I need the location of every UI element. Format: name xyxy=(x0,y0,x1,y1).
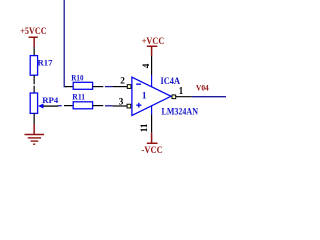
pin: R11 pin 1 (left) xyxy=(64,105,73,107)
potentiometer RP4 xyxy=(30,93,59,113)
svg-text:1: 1 xyxy=(179,86,183,97)
pin 2 of op-amp IC4A (inverting input) xyxy=(113,76,131,89)
ground xyxy=(25,124,45,144)
pin: R17 pin 2 (bottom) xyxy=(33,75,35,84)
svg-text:2: 2 xyxy=(120,76,125,86)
power port -VCC xyxy=(142,133,163,156)
svg-text:V04: V04 xyxy=(196,83,209,93)
pin 3 of op-amp IC4A (non-inverting input) xyxy=(113,97,131,108)
pin: RP4 pin 2 (bottom) xyxy=(33,113,35,124)
wire: R10 to op-amp pin 2 xyxy=(105,86,113,88)
svg-text:-VCC: -VCC xyxy=(142,146,163,156)
svg-text:R11: R11 xyxy=(72,92,85,102)
resistor R17 xyxy=(30,56,53,76)
svg-text:LM324AN: LM324AN xyxy=(162,106,199,116)
pin: RP4 pin 1 (top) xyxy=(33,86,35,93)
wire: R11 to op-amp pin 3 xyxy=(105,105,113,107)
power port +VCC xyxy=(142,37,165,56)
svg-text:+VCC: +VCC xyxy=(142,37,165,47)
op-amp IC4A triangle body xyxy=(132,77,171,115)
pin: RP4 wiper pin xyxy=(43,105,58,107)
svg-text:11: 11 xyxy=(139,123,149,132)
power port +5VCC xyxy=(20,27,46,47)
resistor R10 xyxy=(71,72,92,89)
pin 11 of op-amp IC4A (V-) xyxy=(139,106,151,133)
wire: vertical net from top edge into R10 row xyxy=(64,0,66,87)
pin: R10 pin 1 (left) xyxy=(65,86,73,88)
svg-text:R17: R17 xyxy=(38,58,54,68)
svg-text:1: 1 xyxy=(142,90,147,101)
pin 1 of op-amp IC4A (output) xyxy=(172,86,192,98)
pin: R10 pin 2 (right) xyxy=(93,86,104,88)
svg-text:RP4: RP4 xyxy=(42,95,59,105)
wire: RP4 wiper to R11 xyxy=(58,105,62,107)
svg-text:4: 4 xyxy=(141,63,151,68)
pin: R11 pin 2 (right) xyxy=(93,105,104,107)
svg-text:3: 3 xyxy=(119,97,124,107)
svg-text:+5VCC: +5VCC xyxy=(20,27,46,37)
resistor R11 xyxy=(72,92,92,109)
svg-text:IC4A: IC4A xyxy=(161,76,181,86)
svg-text:R10: R10 xyxy=(71,72,84,82)
wire: output to right edge xyxy=(192,96,226,98)
pin: R17 pin 1 (top) xyxy=(33,47,35,56)
pin 4 of op-amp IC4A (V+) xyxy=(141,56,152,87)
